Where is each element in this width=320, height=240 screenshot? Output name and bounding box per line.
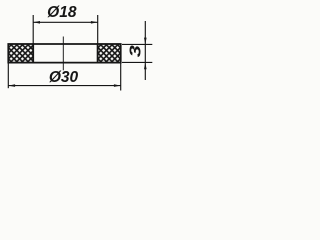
dimension Ø30 right arrowhead <box>114 84 121 87</box>
dimension Ø30 left extension line <box>7 63 9 89</box>
vertical centerline (axis) <box>62 37 64 71</box>
svg-text:Ø18: Ø18 <box>47 4 77 21</box>
washer right ring section (cross-hatched) <box>98 44 121 63</box>
hole top edge line <box>33 43 97 45</box>
dimension Ø18 right arrowhead <box>91 21 98 24</box>
thickness 3 bottom extension line <box>122 61 152 63</box>
thickness 3 dimension line <box>144 21 146 80</box>
washer left ring section (cross-hatched) <box>8 44 33 63</box>
svg-text:Ø30: Ø30 <box>49 69 79 86</box>
dimension Ø30 left arrowhead <box>8 84 15 87</box>
hole bottom edge line <box>33 62 97 64</box>
thickness 3 top extension line <box>122 43 152 45</box>
dimension Ø30 right extension line <box>120 63 122 91</box>
svg-text:3: 3 <box>127 45 145 58</box>
dimension Ø18 dimension line <box>33 21 98 23</box>
thickness 3 bottom arrowhead (pointing up) <box>144 62 147 69</box>
thickness 3 top arrowhead (pointing down) <box>144 38 147 45</box>
dimension Ø18 left arrowhead <box>33 21 40 24</box>
dimension Ø18 right extension line <box>97 15 99 44</box>
dimension Ø30 dimension line <box>8 85 120 87</box>
dimension Ø18 left extension line <box>32 15 34 44</box>
